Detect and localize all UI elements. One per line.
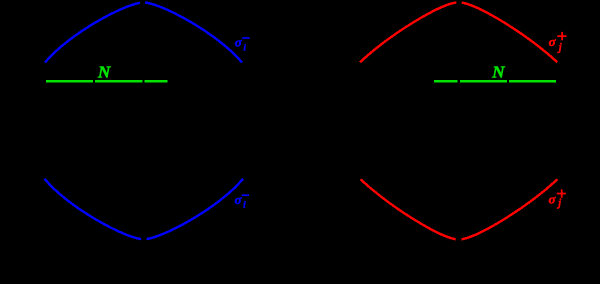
- blue lower arc (sigma_i^- dip, left diagram): [45, 179, 244, 240]
- gap at apex of red upper arc: [456, 0, 461, 7]
- gap at apex of blue upper arc: [140, 0, 145, 7]
- label sigma_j^+ (top, red): superscript plus, horizontal stroke: [557, 35, 566, 37]
- svg-text:σ: σ: [235, 34, 243, 49]
- svg-text:σ: σ: [549, 34, 557, 49]
- svg-text:i: i: [243, 200, 246, 210]
- svg-text:σ: σ: [235, 192, 243, 207]
- green dashed level line N (right), dash 1: [434, 80, 457, 82]
- svg-text:i: i: [243, 43, 246, 53]
- green dashed level line N (left), dash 2: [95, 80, 142, 82]
- red lower arc (sigma_j^+ dip, right diagram): [361, 179, 558, 239]
- green dashed level line N (right), dash 2: [460, 80, 507, 82]
- svg-text:N: N: [97, 63, 111, 82]
- green dashed level line N (left), dash 3: [145, 80, 168, 82]
- gap at valley of blue lower arc: [141, 235, 146, 242]
- green dashed level line N (left), dash 1: [46, 80, 93, 82]
- label sigma_j^+ (bottom, red): superscript plus, horizontal stroke: [557, 193, 566, 195]
- label sigma_j^+ (bottom, red): superscript plus, vertical stroke: [561, 189, 563, 197]
- svg-text:σ: σ: [549, 191, 557, 206]
- label sigma_j^+ (top, red): superscript plus, vertical stroke: [561, 32, 563, 40]
- svg-text:N: N: [491, 62, 505, 81]
- green dashed level line N (right), dash 3: [509, 80, 556, 82]
- label sigma_i^- (top, blue): superscript minus bar: [242, 37, 249, 39]
- blue upper arc (sigma_i^- bump, left diagram): [45, 3, 242, 63]
- gap at valley of red lower arc: [456, 235, 462, 242]
- label sigma_i^- (bottom, blue): superscript minus bar: [242, 194, 249, 196]
- red upper arc (sigma_j^+ bump, right diagram): [360, 2, 557, 62]
